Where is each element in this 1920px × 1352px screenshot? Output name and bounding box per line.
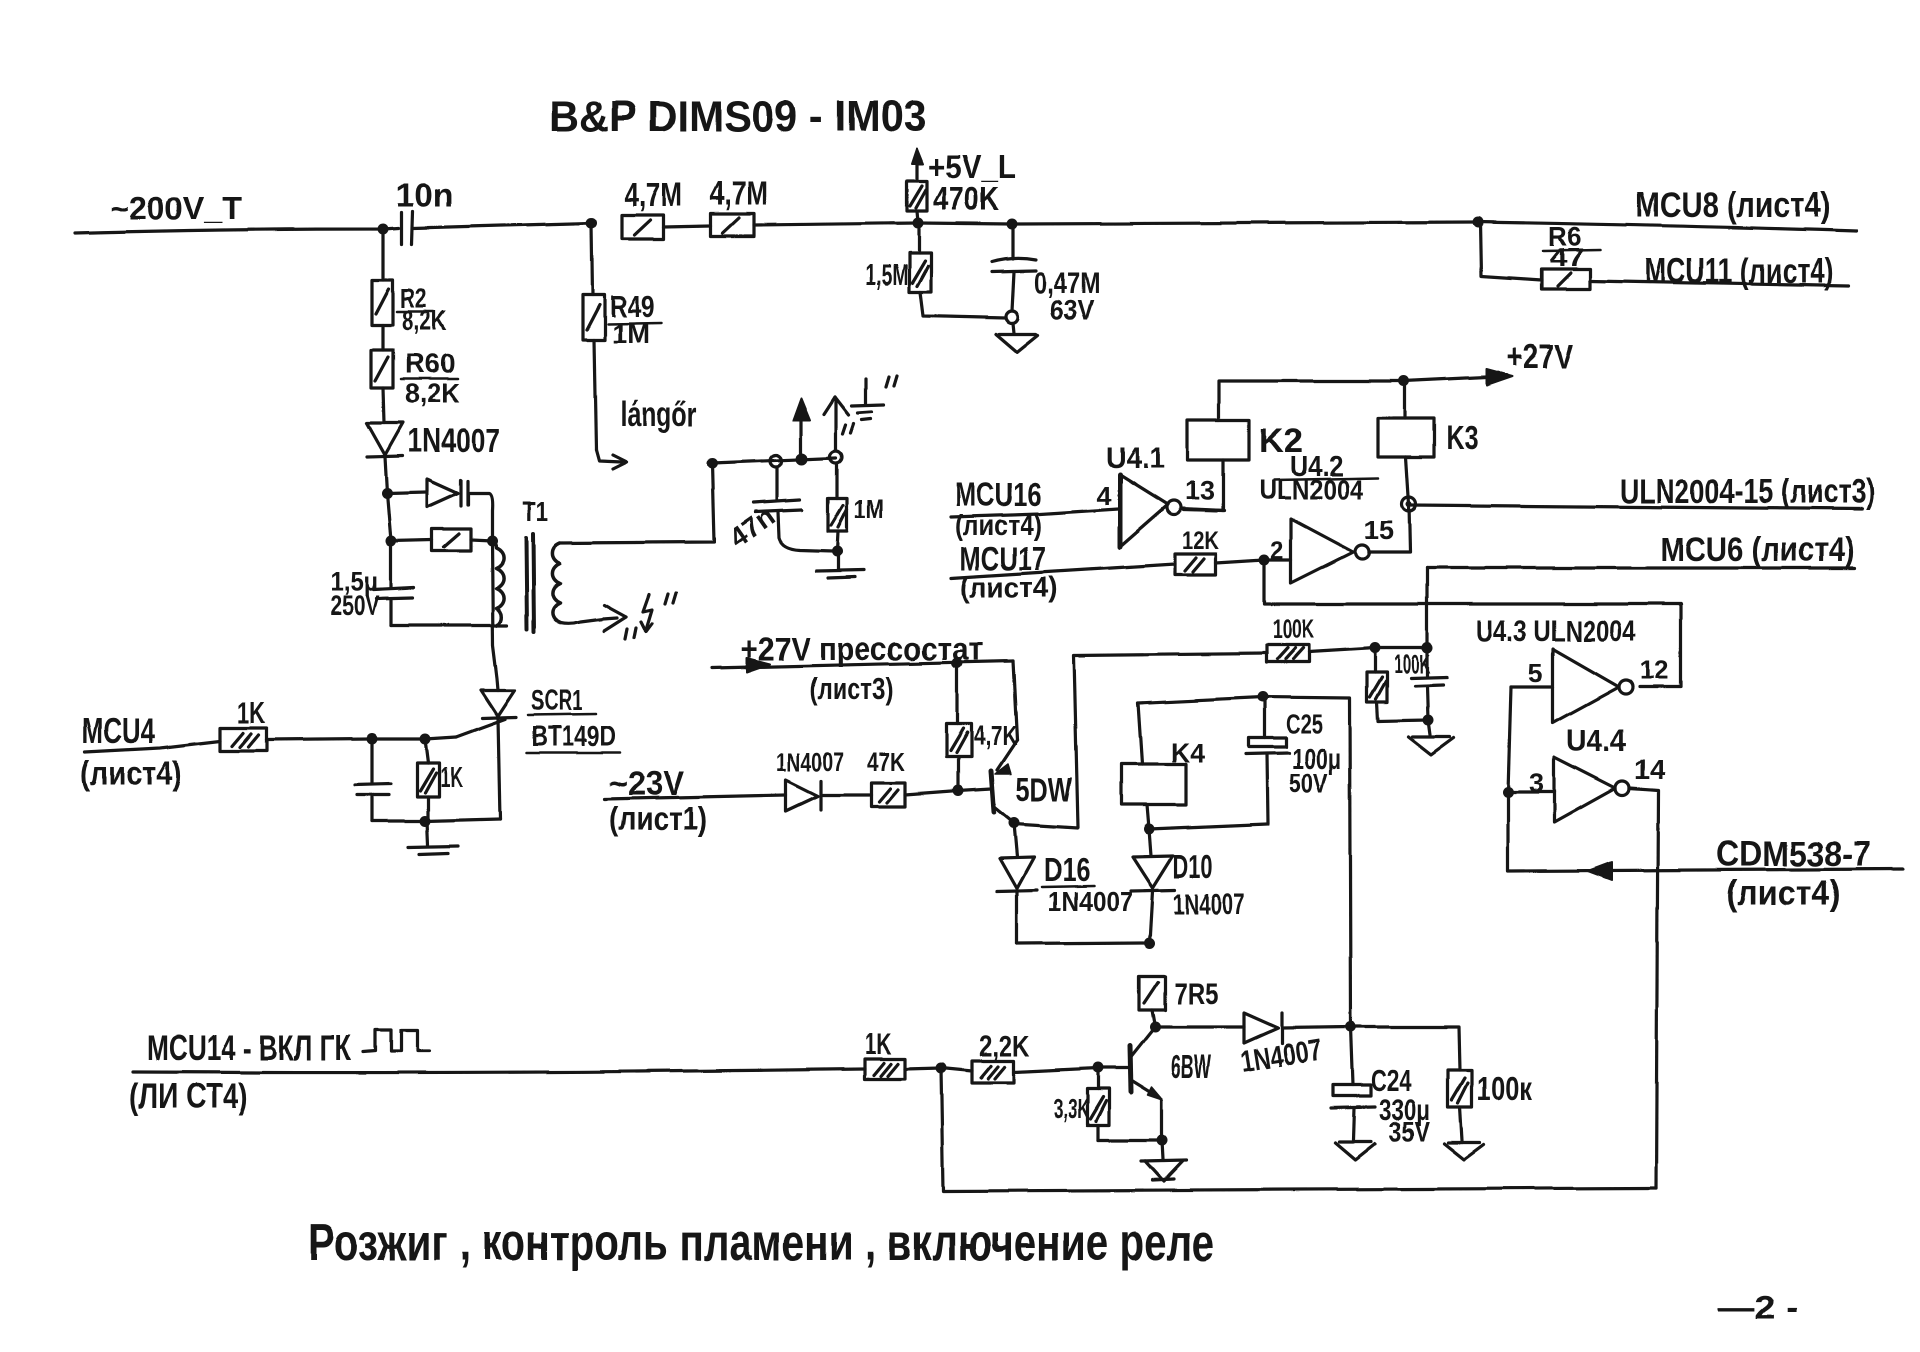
resistor 12K	[1175, 554, 1216, 575]
label U4.3 ULN2004	[1476, 615, 1636, 648]
value 1M	[854, 494, 884, 524]
ground 100K right	[1444, 1107, 1484, 1160]
transistor 6BW emitter with arrow	[1131, 1080, 1163, 1100]
power +27V arrow	[1404, 369, 1512, 385]
svg-text:63V: 63V	[1050, 294, 1094, 325]
wire SCR1 gate	[456, 719, 505, 737]
wire bus to 0,47M node	[918, 223, 1012, 224]
svg-text:MCU14 - ВКЛ ГК: MCU14 - ВКЛ ГК	[147, 1027, 352, 1068]
svg-text:14: 14	[1634, 754, 1666, 785]
wire between 4,7M resistors	[663, 226, 711, 227]
svg-text:CDM538-7: CDM538-7	[1716, 835, 1871, 874]
svg-text:MCU8 (лист4): MCU8 (лист4)	[1636, 186, 1830, 225]
label MCU16 (sheet4)	[955, 476, 1042, 542]
wire gate bottom rail	[372, 819, 500, 821]
wire to SCR gate	[425, 737, 456, 739]
node junction 6BW base	[1093, 1063, 1104, 1074]
node open circle below 0,47M	[1006, 311, 1018, 323]
resistor 4,7M (second)	[711, 214, 754, 236]
wire bottom of primary loop	[391, 623, 507, 626]
node junction 27V K3	[1399, 376, 1410, 387]
ground C24	[1335, 1142, 1375, 1160]
wire gate node to 1K node	[372, 737, 425, 740]
label 5DW	[1016, 771, 1073, 809]
ground below 0,47M	[996, 334, 1038, 352]
svg-text:C24: C24	[1371, 1063, 1412, 1098]
wire R6 branch down	[1480, 222, 1541, 280]
arrow spark output	[603, 605, 626, 631]
svg-text:K4: K4	[1171, 737, 1205, 768]
node junction B2	[386, 536, 397, 547]
svg-text:10n: 10n	[396, 176, 453, 213]
value 10n	[396, 176, 453, 213]
underline BT149D	[526, 752, 620, 755]
svg-text:7R5: 7R5	[1174, 976, 1218, 1011]
arrow up open (HV probe 2)	[824, 397, 849, 451]
node junction K3 bottom (double ring)	[1402, 497, 1416, 511]
wire 7R5 to collector node	[1152, 1010, 1155, 1027]
transistor 6BW bar	[1130, 1046, 1131, 1092]
resistor 1K gate	[220, 728, 266, 751]
svg-text:+27V: +27V	[1506, 338, 1573, 376]
svg-text:13: 13	[1185, 476, 1215, 506]
value 100K horizontal	[1272, 614, 1314, 644]
node junction A1	[378, 224, 389, 235]
wire node to snubber resistor	[391, 540, 432, 541]
svg-text:15: 15	[1364, 515, 1394, 545]
capacitor 47n	[753, 467, 833, 551]
inverter U4.1	[1120, 475, 1181, 547]
underline U4.2	[1274, 478, 1378, 480]
resistor 4,7K	[946, 663, 971, 791]
resistor 7R5	[1139, 976, 1165, 1010]
wire node to snubber diode	[387, 492, 427, 493]
wire R60 to diode	[383, 388, 384, 423]
wire U4.2 input down and right to U4.3 out	[1264, 560, 1681, 687]
node junction bus left	[707, 458, 718, 469]
svg-text:8,2K: 8,2K	[402, 305, 447, 336]
value C24 330u 35V	[1371, 1063, 1430, 1147]
wire 0,47M bottom	[1012, 272, 1014, 311]
svg-text:U4.1: U4.1	[1106, 440, 1165, 475]
wire U4.3 input tie	[1511, 685, 1553, 688]
value 47n (slanted)	[723, 501, 780, 554]
svg-text:100к: 100к	[1477, 1070, 1532, 1107]
wire pressostat with arrow	[712, 658, 1013, 672]
resistor snubber (parallel pair bottom)	[432, 529, 471, 551]
wire bus to R6 node	[1012, 222, 1478, 224]
node junction C24	[1346, 1022, 1357, 1033]
wire MCU4 to 1K	[85, 741, 220, 752]
capacitor C 10n	[402, 211, 413, 244]
relay K4	[1121, 764, 1186, 805]
wire bus down to 1,5M	[917, 229, 920, 253]
transistor 6BW collector	[1131, 1027, 1155, 1057]
label U4.1	[1106, 440, 1165, 475]
resistor 47K	[871, 783, 905, 807]
node junction 100K right	[1422, 643, 1433, 654]
wire secondary top to 47n bus	[560, 463, 714, 543]
resistor 1K bottom	[865, 1059, 905, 1079]
node junction 5DW collector	[1009, 818, 1020, 829]
arrow langor output	[596, 450, 627, 469]
caption bottom	[308, 1214, 1214, 1272]
node junction B1	[382, 488, 393, 499]
node junction cap bottom	[1423, 715, 1434, 726]
svg-text:470K: 470K	[933, 180, 999, 217]
value 1K vertical	[440, 762, 463, 794]
label K4	[1171, 737, 1205, 768]
value 4,7M second	[710, 175, 768, 212]
svg-text:C25: C25	[1286, 709, 1323, 739]
svg-text:12K: 12K	[1182, 527, 1219, 555]
wire 3,3K bottom to emitter	[1098, 1138, 1162, 1141]
wire 1K to gate node	[266, 739, 372, 740]
svg-text:3,3K: 3,3K	[1053, 1093, 1089, 1124]
label MCU4 (sheet4)	[80, 712, 182, 793]
resistor 2,2K	[972, 1061, 1014, 1083]
node junction 5DW base	[953, 786, 964, 797]
wire CD4538-7 line	[1508, 792, 1903, 871]
svg-text:100K: 100K	[1394, 649, 1430, 679]
inverter U4.2	[1291, 519, 1369, 583]
svg-text:U4.3 ULN2004: U4.3 ULN2004	[1476, 615, 1636, 648]
thyristor SCR1	[481, 690, 516, 718]
wire bus down to R2	[381, 229, 384, 280]
svg-text:1N4007: 1N4007	[776, 747, 844, 777]
transistor 5DW bar	[991, 771, 994, 812]
svg-text:4,7K: 4,7K	[973, 720, 1017, 751]
node open circle 1M	[830, 451, 842, 463]
wire base to bar	[958, 789, 991, 791]
wire node to 2,2K	[941, 1068, 972, 1071]
node junction collector	[1150, 1022, 1161, 1033]
value 100K right	[1477, 1070, 1532, 1107]
resistor R60	[371, 350, 393, 388]
wire 23V to diode	[605, 795, 786, 799]
relay K2	[1188, 420, 1249, 460]
svg-text:~200V_T: ~200V_T	[110, 190, 242, 226]
label R2 / 8,2K	[400, 283, 447, 336]
node junction arrow1	[796, 453, 808, 465]
pin 13 label	[1185, 476, 1215, 506]
svg-text:4,7M: 4,7M	[624, 176, 682, 213]
capacitor C24	[1331, 1027, 1375, 1140]
wire MCU6 line	[1427, 566, 1855, 569]
ground reference symbol with quotes	[843, 376, 897, 434]
label +27V	[1506, 338, 1573, 376]
value 12K	[1182, 527, 1219, 555]
wire bus to +5V node	[754, 223, 918, 225]
wire R49 top	[592, 223, 593, 295]
value 7R5	[1174, 976, 1218, 1011]
wire U4.1 out to K2	[1181, 509, 1224, 511]
wire SCR1 cathode	[498, 718, 500, 819]
svg-text:1K: 1K	[865, 1028, 892, 1061]
node junction D10 bottom	[1145, 938, 1156, 949]
label CD4538-7 (sheet4)	[1716, 835, 1871, 913]
svg-text:MCU4: MCU4	[82, 712, 155, 751]
svg-text:50V: 50V	[1289, 768, 1328, 799]
wire U4.2 out to K3 bottom	[1369, 504, 1410, 552]
node junction at 0,47M	[1007, 219, 1018, 230]
svg-text:D16: D16	[1044, 851, 1090, 888]
node junction A2	[587, 218, 598, 229]
wire K4 bottom	[1147, 805, 1149, 829]
node junction at R6	[1473, 217, 1484, 228]
wire K2 bottom to U4.1 out	[1184, 460, 1223, 511]
svg-text:47n: 47n	[723, 501, 780, 554]
wire bus to MCU8	[1478, 222, 1857, 231]
fraction line R2	[397, 311, 434, 314]
label K3	[1446, 419, 1478, 457]
resistor 100K vertical	[1367, 648, 1428, 721]
resistor R49	[583, 295, 605, 340]
wire bus to R49 node	[413, 223, 592, 228]
svg-text:100K: 100K	[1272, 614, 1314, 644]
pin 2 label	[1270, 537, 1284, 565]
resistor R6	[1541, 269, 1590, 289]
svg-text:R60: R60	[405, 348, 455, 379]
wire 47n bus	[712, 458, 836, 463]
node junction 100K vert top	[1370, 643, 1381, 654]
node junction 1M bottom	[832, 546, 843, 557]
resistor 1M vertical	[828, 463, 847, 551]
value 3,3K	[1053, 1093, 1089, 1124]
wire R49 down to arrow	[594, 340, 596, 450]
value 47K	[867, 747, 905, 777]
wire 1K to node	[905, 1068, 941, 1069]
label R60 / 8,2K	[405, 348, 460, 409]
wire feedback bottom rail	[941, 1068, 1656, 1191]
pin 12 label	[1640, 655, 1669, 685]
svg-text:(лист3): (лист3)	[809, 671, 894, 706]
svg-text:K3: K3	[1446, 419, 1478, 457]
label D10 / 1N4007	[1173, 848, 1245, 921]
label ~23V (sheet1)	[609, 765, 707, 837]
resistor R2	[372, 280, 393, 325]
svg-text:2: 2	[1270, 537, 1284, 565]
resistor 470K	[907, 181, 927, 211]
svg-text:35V: 35V	[1389, 1116, 1430, 1147]
label MCU11 (sheet4)	[1644, 252, 1833, 291]
wire 100K to riser node	[1309, 648, 1427, 652]
node junction emitter	[1157, 1135, 1168, 1146]
ground 1M bottom	[816, 551, 864, 578]
svg-text:5DW: 5DW	[1016, 771, 1073, 809]
node junction at 470K	[913, 218, 924, 229]
svg-text:MCU16: MCU16	[955, 476, 1041, 513]
svg-text:U4.4: U4.4	[1566, 723, 1627, 758]
label MCU6 (sheet4)	[1660, 531, 1855, 569]
fraction line R60	[401, 378, 458, 381]
resistor 100K horizontal	[1266, 645, 1309, 662]
wire K4 top riser	[1138, 697, 1263, 764]
page number -2-	[1718, 1289, 1798, 1327]
wire snubber diode corner down	[470, 493, 492, 541]
diode snubber (parallel pair top)	[427, 479, 468, 507]
svg-text:(лист4): (лист4)	[1726, 874, 1841, 913]
pin 15 label	[1364, 515, 1394, 545]
transformer T1 core	[526, 534, 534, 632]
underline SCR1	[528, 714, 596, 715]
svg-text:2,2K: 2,2K	[979, 1030, 1030, 1063]
svg-text:1,5M: 1,5M	[865, 259, 908, 292]
arrow up solid (HV probe 1)	[793, 398, 810, 453]
svg-text:1M: 1M	[854, 494, 884, 524]
wire 27V rail to K2	[1219, 381, 1404, 420]
resistor 1K vertical	[417, 739, 439, 821]
diode D16	[997, 823, 1037, 944]
svg-text:D10: D10	[1173, 848, 1213, 885]
wire input tie down to U4.4	[1508, 687, 1511, 792]
value 1K bottom	[865, 1028, 892, 1061]
label D16 / 1N4007	[1044, 851, 1133, 917]
svg-text:ULN2004-15 (лист3): ULN2004-15 (лист3)	[1620, 473, 1875, 511]
pulse train symbol	[363, 1030, 429, 1052]
svg-text:4: 4	[1096, 481, 1111, 511]
svg-text:(лист1): (лист1)	[609, 800, 707, 837]
wire emitter down	[1160, 1100, 1163, 1140]
power +5V_L arrow	[912, 149, 923, 181]
wire secondary bottom spark output	[560, 619, 603, 624]
thyristor SCR1 anode wire	[492, 541, 498, 690]
ground gate rail	[408, 821, 458, 854]
underline D16	[1042, 886, 1094, 887]
spark bolt symbol	[641, 595, 652, 632]
pin 4 label	[1096, 481, 1111, 511]
node junction C25 top	[1258, 692, 1269, 703]
svg-text:1N4007: 1N4007	[1173, 889, 1245, 921]
label R6 / 47	[1548, 221, 1584, 272]
wire pressostat corner down (5DW emitter)	[1013, 661, 1017, 740]
svg-text:6BW: 6BW	[1171, 1048, 1211, 1085]
svg-text:1N4007: 1N4007	[1048, 886, 1133, 917]
diode 1N4007 (snubber K4)	[1244, 1013, 1282, 1043]
label +5V_L	[928, 148, 1016, 185]
value 470K	[933, 180, 999, 217]
transistor 5DW emitter with arrow	[995, 740, 1017, 774]
node junction pressostat	[952, 658, 963, 669]
value C25 100u 50V	[1286, 709, 1341, 799]
value 4,7M first	[624, 176, 682, 213]
svg-text:lángőr: lángőr	[620, 396, 697, 434]
label 6BW	[1171, 1048, 1211, 1085]
label SCR1 / BT149D	[531, 685, 616, 753]
wire U4.4 output feedback riser	[1629, 788, 1658, 1188]
title B&P DIMS09-IM03	[549, 92, 927, 141]
wire R2 to R60	[381, 325, 384, 350]
capacitor 0,47M top wire	[1011, 229, 1014, 259]
svg-text:4,7M: 4,7M	[710, 175, 768, 212]
wire snubber resistor to T1 node	[471, 540, 492, 541]
value 1N4007 snubber	[1238, 1033, 1324, 1078]
svg-text:—2 -: —2 -	[1718, 1289, 1798, 1327]
fraction line R6	[1543, 250, 1600, 251]
svg-text:8,2K: 8,2K	[405, 378, 460, 409]
transformer T1 secondary coil	[552, 543, 560, 623]
svg-text:Розжиг , контроль пламени , вк: Розжиг , контроль пламени , включение ре…	[308, 1214, 1214, 1272]
wire 2,2K to base node	[1014, 1068, 1098, 1072]
diode D10	[1131, 829, 1175, 943]
wire 1,5M bottom L-corner	[920, 292, 1006, 318]
wire C25 top to C24 riser	[1263, 697, 1351, 1027]
wire U4.4 input	[1508, 790, 1554, 793]
wire 470K to bus	[917, 211, 918, 223]
svg-text:MCU6 (лист4): MCU6 (лист4)	[1660, 531, 1855, 569]
value 2,2K	[979, 1030, 1030, 1063]
wire diode to node	[385, 457, 387, 493]
transformer T1 label	[522, 496, 548, 527]
wire collector rail to 100K riser	[1014, 653, 1266, 828]
value 1K gate	[237, 695, 265, 730]
wire MCU16 input	[951, 509, 1118, 517]
inverter U4.3	[1553, 649, 1633, 723]
ground 6BW emitter	[1141, 1140, 1186, 1181]
wire MCU14 long line	[133, 1069, 865, 1073]
value 1,5u 250V	[330, 567, 379, 621]
wire MCU6 riser down	[1425, 568, 1428, 676]
label R49 / 1M	[610, 289, 655, 349]
value 1N4007 23V	[776, 747, 844, 777]
svg-text:(лист4): (лист4)	[80, 755, 182, 793]
label +27V pressostat (sheet3)	[741, 630, 983, 706]
transformer T1 primary coil	[492, 542, 504, 625]
svg-text:250V: 250V	[330, 590, 379, 621]
value 100K vertical	[1394, 649, 1430, 679]
resistor 100K right	[1448, 1070, 1472, 1107]
label langor	[620, 396, 697, 434]
capacitor 1,5u 250V	[373, 541, 414, 625]
resistor 1,5M	[909, 253, 931, 292]
svg-text:1K: 1K	[237, 695, 265, 730]
node junction K4 bottom	[1144, 824, 1155, 835]
wire MCU17 to 12K	[951, 564, 1175, 578]
capacitor 0,47M	[992, 258, 1036, 272]
pin 3 label	[1529, 768, 1544, 798]
relay K3	[1378, 381, 1434, 504]
capacitor gate filter	[355, 739, 391, 821]
value 1N4007	[408, 422, 500, 459]
label MCU17 (sheet4)	[960, 540, 1058, 604]
wire D16 bottom rail	[1017, 943, 1150, 944]
svg-text:47K: 47K	[867, 747, 905, 777]
wire ULN2004-15 output	[1409, 505, 1862, 509]
diode 1N4007 (left chain)	[367, 423, 403, 457]
net ~200V_T label	[110, 190, 242, 226]
diode 1N4007 (23V input)	[786, 780, 821, 811]
svg-text:12: 12	[1640, 655, 1669, 685]
label MCU14 - VKL GK (sheet4)	[129, 1027, 352, 1116]
resistor 4,7M (first)	[622, 215, 663, 239]
resistor 3,3K	[1087, 1068, 1109, 1140]
label MCU8 (sheet4)	[1636, 186, 1830, 225]
pin 5 label	[1528, 658, 1543, 688]
arrow on CD4538 line	[1588, 862, 1612, 880]
wire diode to 47K	[821, 793, 871, 796]
node junction feedback	[936, 1063, 947, 1074]
label K2	[1259, 422, 1303, 460]
node open circle 47n	[770, 455, 782, 467]
wire collector to diode	[1155, 1025, 1244, 1028]
value 0,47M 63V	[1034, 267, 1100, 325]
value 4,7K	[973, 720, 1017, 751]
wire to ground	[1013, 323, 1014, 333]
wire diode to C24 node	[1282, 1027, 1351, 1028]
pin 14 label	[1634, 754, 1666, 785]
label U4.4	[1566, 723, 1627, 758]
label U4.2 / ULN2004	[1259, 451, 1363, 505]
